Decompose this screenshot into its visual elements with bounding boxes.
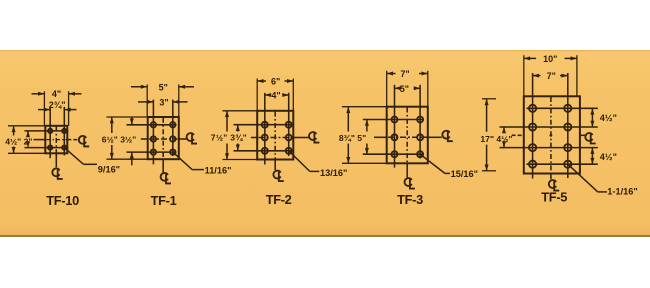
dimension 4-1/2in-bottom-right TF-5 [591, 148, 593, 165]
svg-text:TF-3: TF-3 [397, 192, 423, 207]
plate TF-2 outline [257, 111, 293, 160]
svg-text:10": 10" [543, 54, 557, 64]
dimension 5in TF-3 [395, 87, 402, 89]
centerline symbol right TF-3 [442, 131, 449, 139]
svg-text:6½" 3½": 6½" 3½" [102, 134, 136, 144]
horizontal centerline TF-3 [374, 136, 387, 138]
svg-text:5": 5" [159, 82, 168, 92]
hole row lines TF-10 [25, 130, 69, 132]
svg-text:4": 4" [271, 91, 280, 101]
svg-text:7½" 3¾": 7½" 3¾" [211, 133, 247, 143]
dimension 3in TF-1 [138, 101, 153, 103]
dimension 5in TF-1 [146, 84, 148, 117]
plate TF-10 outline [45, 126, 67, 154]
svg-text:6": 6" [271, 76, 280, 86]
leader 1-1/16in TF-5 [568, 164, 598, 192]
dimension 4-1/2in-left TF-5 [503, 127, 505, 132]
svg-text:TF-10: TF-10 [46, 193, 79, 208]
horizontal centerline TF-2 [251, 137, 257, 139]
drawing TF-1 [102, 82, 232, 208]
dimension 8-3/4in TF-3 [342, 106, 387, 108]
svg-text:4½": 4½" [600, 152, 617, 162]
svg-text:TF-5: TF-5 [541, 190, 567, 205]
dimension 4-1/2in TF-10 [8, 125, 45, 127]
plate TF-1 outline [148, 117, 179, 159]
svg-text:4½" 2": 4½" 2" [5, 136, 32, 146]
leader 9/16in TF-10 [64, 148, 83, 165]
centerline symbol right TF-5 [585, 133, 592, 141]
dimension 6in TF-2 [256, 79, 258, 111]
centerline symbol bottom TF-10 [52, 168, 59, 176]
vertical centerline TF-5 [550, 97, 552, 173]
svg-text:7": 7" [547, 71, 556, 81]
svg-text:11/16": 11/16" [205, 166, 232, 176]
dimension 2in TF-10 [27, 131, 29, 136]
hole column lines TF-10 [49, 107, 51, 158]
svg-text:1-1/16": 1-1/16" [607, 187, 637, 197]
svg-text:TF-1: TF-1 [151, 193, 177, 208]
svg-text:8¾" 5": 8¾" 5" [339, 133, 366, 143]
svg-text:17" 4½": 17" 4½" [480, 134, 512, 144]
centerline symbol bottom TF-2 [273, 171, 280, 179]
dimension 3-3/4in TF-2 [237, 125, 239, 132]
hole row lines TF-2 [234, 124, 294, 126]
orange paper band [0, 50, 650, 237]
bolt holes TF-3 [392, 117, 398, 123]
centerline symbol bottom TF-3 [405, 178, 412, 186]
hole row lines TF-1 [127, 124, 177, 126]
dimension 6-1/2in TF-1 [107, 116, 148, 118]
horizontal centerline TF-10 [34, 139, 46, 141]
svg-text:5": 5" [400, 84, 409, 94]
bolt holes TF-10 [48, 129, 52, 133]
dimension 4in TF-10 [43, 91, 45, 126]
dimension 4-1/2in-top-right TF-5 [591, 108, 593, 127]
vertical centerline TF-10 [55, 127, 57, 153]
centerline symbol right TF-1 [187, 133, 194, 141]
dimension 4in TF-2 [265, 94, 271, 96]
hole column lines TF-1 [152, 100, 154, 165]
leader 13/16in TF-2 [289, 151, 310, 172]
vertical centerline TF-3 [406, 108, 408, 163]
drawing TF-10 [5, 89, 120, 208]
svg-text:13/16": 13/16" [320, 168, 347, 178]
hole row lines TF-5 [527, 107, 598, 109]
hole column lines TF-2 [264, 93, 266, 165]
svg-text:4": 4" [52, 89, 61, 99]
dimension 10in TF-5 [523, 55, 525, 96]
dimension 5in-left TF-3 [366, 120, 368, 132]
svg-text:9/16": 9/16" [98, 164, 120, 174]
vertical centerline TF-1 [162, 118, 164, 159]
vertical centerline TF-2 [274, 112, 276, 159]
plate TF-5 outline [524, 96, 580, 173]
leader 11/16in TF-1 [173, 152, 192, 170]
drawing TF-3 [339, 69, 478, 207]
drawing TF-5 [480, 54, 637, 205]
svg-text:3": 3" [159, 97, 168, 107]
centerline symbol bottom TF-5 [549, 180, 556, 188]
svg-text:4½": 4½" [600, 113, 617, 123]
bolt holes TF-5 [529, 105, 536, 112]
dimension 7in TF-3 [386, 71, 388, 107]
centerline symbol right TF-2 [309, 132, 316, 140]
bolt holes TF-1 [151, 122, 156, 127]
centerline symbol right TF-10 [79, 136, 86, 144]
svg-text:2¾": 2¾" [49, 100, 66, 110]
svg-text:15/16": 15/16" [451, 169, 478, 179]
dimension 3-1/2in TF-1 [131, 117, 133, 125]
dark bottom edge of band [0, 235, 650, 237]
plate TF-3 outline [387, 107, 428, 164]
hole column lines TF-5 [532, 73, 534, 179]
bolt holes TF-2 [262, 122, 268, 128]
leader 15/16in TF-3 [420, 154, 445, 173]
hole row lines TF-3 [363, 119, 424, 121]
horizontal centerline TF-5 [512, 134, 524, 136]
svg-text:TF-2: TF-2 [266, 192, 292, 207]
dimension 2-3/4in TF-10 [38, 109, 50, 111]
horizontal centerline TF-1 [141, 138, 148, 140]
hole column lines TF-3 [394, 85, 396, 168]
drawing TF-2 [211, 76, 348, 207]
centerline symbol bottom TF-1 [161, 173, 168, 181]
dimension 7in TF-5 [533, 75, 541, 77]
svg-text:7": 7" [400, 69, 409, 79]
dimension 7-1/2in TF-2 [223, 110, 258, 112]
dimension 17in TF-5 [482, 98, 496, 100]
